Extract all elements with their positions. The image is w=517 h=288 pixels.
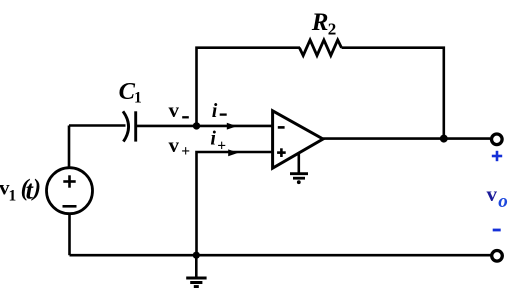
wire bbox=[68, 126, 71, 169]
svg-text:v: v bbox=[487, 182, 498, 206]
svg-text:+: + bbox=[181, 143, 190, 160]
wire bbox=[342, 48, 444, 139]
arrow i+ bbox=[228, 149, 238, 156]
svg-text:i: i bbox=[210, 128, 216, 150]
node v- junction bbox=[193, 122, 200, 129]
resistor R2 bbox=[299, 40, 341, 56]
ground (op-amp) bbox=[290, 154, 308, 184]
svg-text:v: v bbox=[169, 133, 180, 157]
source v1(t) bbox=[47, 168, 93, 214]
wire bbox=[69, 124, 126, 127]
capacitor C1 bbox=[123, 111, 136, 141]
ground (bottom) bbox=[186, 255, 206, 286]
svg-text:R: R bbox=[311, 9, 329, 36]
arrow i- bbox=[227, 123, 237, 130]
svg-text:): ) bbox=[31, 176, 41, 202]
label - (output, blue) bbox=[493, 229, 501, 232]
svg-text:+: + bbox=[217, 138, 226, 155]
wire bbox=[137, 125, 197, 128]
wire bbox=[70, 254, 491, 257]
terminal - output bbox=[492, 251, 503, 262]
svg-text:1: 1 bbox=[9, 188, 17, 205]
wire bbox=[197, 125, 273, 128]
op-amp U1 bbox=[273, 111, 323, 168]
wire bbox=[323, 137, 490, 140]
svg-text:1: 1 bbox=[134, 90, 142, 107]
terminal + output bbox=[492, 134, 503, 145]
node ground junction bbox=[193, 252, 200, 259]
wire bbox=[68, 214, 71, 256]
node output junction bbox=[440, 135, 448, 143]
svg-text:v: v bbox=[169, 98, 180, 122]
label + (output, blue) bbox=[492, 151, 502, 161]
svg-text:i: i bbox=[212, 100, 218, 122]
wire bbox=[197, 152, 273, 255]
wire bbox=[197, 48, 301, 126]
svg-text:2: 2 bbox=[328, 19, 337, 38]
svg-text:o: o bbox=[498, 191, 508, 212]
